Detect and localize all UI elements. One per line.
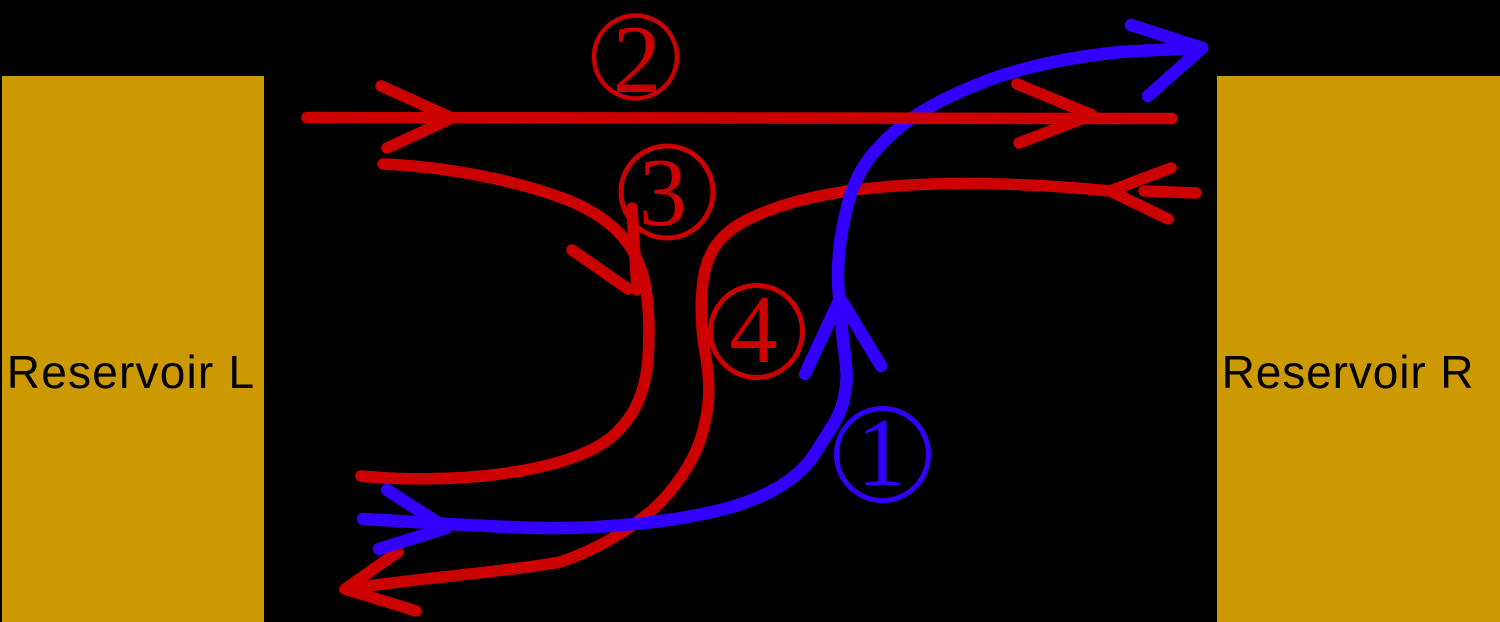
svg-text:Reservoir R: Reservoir R — [1222, 346, 1475, 398]
svg-text:4: 4 — [729, 276, 778, 383]
svg-text:3: 3 — [639, 139, 688, 246]
svg-text:2: 2 — [613, 6, 662, 113]
svg-text:Reservoir L: Reservoir L — [7, 346, 255, 398]
svg-text:1: 1 — [857, 399, 906, 506]
